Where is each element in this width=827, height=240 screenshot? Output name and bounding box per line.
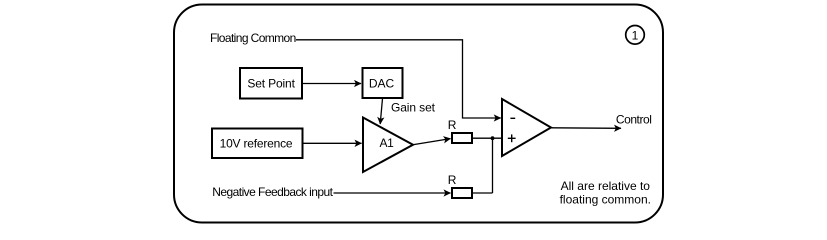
svg-text:R: R <box>448 173 457 187</box>
wire junction down to feedback branch <box>492 138 494 193</box>
svg-text:Gain set: Gain set <box>391 101 436 115</box>
pin label plus (non-inverting input) <box>508 134 516 142</box>
svg-text:A1: A1 <box>380 136 395 150</box>
block DAC U2 <box>363 68 403 98</box>
resistor R1 <box>452 133 472 143</box>
wire Negative Feedback input to resistor R2 <box>334 192 451 194</box>
svg-text:Negative Feedback input: Negative Feedback input <box>212 185 333 199</box>
page number badge 1 <box>626 26 645 45</box>
svg-text:1: 1 <box>632 29 639 43</box>
svg-text:10V reference: 10V reference <box>220 137 293 151</box>
svg-text:All are relative to: All are relative to <box>561 179 651 193</box>
svg-text:floating common.: floating common. <box>560 193 651 207</box>
wire R1 to op-amp non-inverting input <box>472 137 501 139</box>
op-amp U1 <box>502 99 551 156</box>
svg-text:Floating Common: Floating Common <box>210 31 296 45</box>
note All are relative to floating common <box>560 179 651 207</box>
svg-text:Control: Control <box>616 112 652 126</box>
node junction at op-amp non-inverting input <box>491 136 495 140</box>
wire Floating Common to op-amp inverting input <box>296 40 501 118</box>
wire Set Point to DAC <box>303 83 361 85</box>
wire op-amp output to Control <box>552 127 622 130</box>
svg-text:R: R <box>448 118 457 132</box>
block 10V reference <box>212 129 303 159</box>
enclosure boundary (floating common frame) <box>174 5 663 223</box>
svg-text:DAC: DAC <box>369 76 395 90</box>
wire 10V reference to amplifier A1 <box>303 142 362 144</box>
svg-text:Set Point: Set Point <box>247 76 295 90</box>
pin label minus (inverting input) <box>510 117 515 119</box>
wire R2 to junction <box>472 192 493 194</box>
resistor R2 <box>452 188 472 198</box>
amplifier A1 <box>363 118 413 173</box>
block Set Point <box>240 68 302 99</box>
wire DAC to amplifier A1 gain input <box>380 99 382 125</box>
wire A1 output to resistor R1 <box>414 139 451 145</box>
